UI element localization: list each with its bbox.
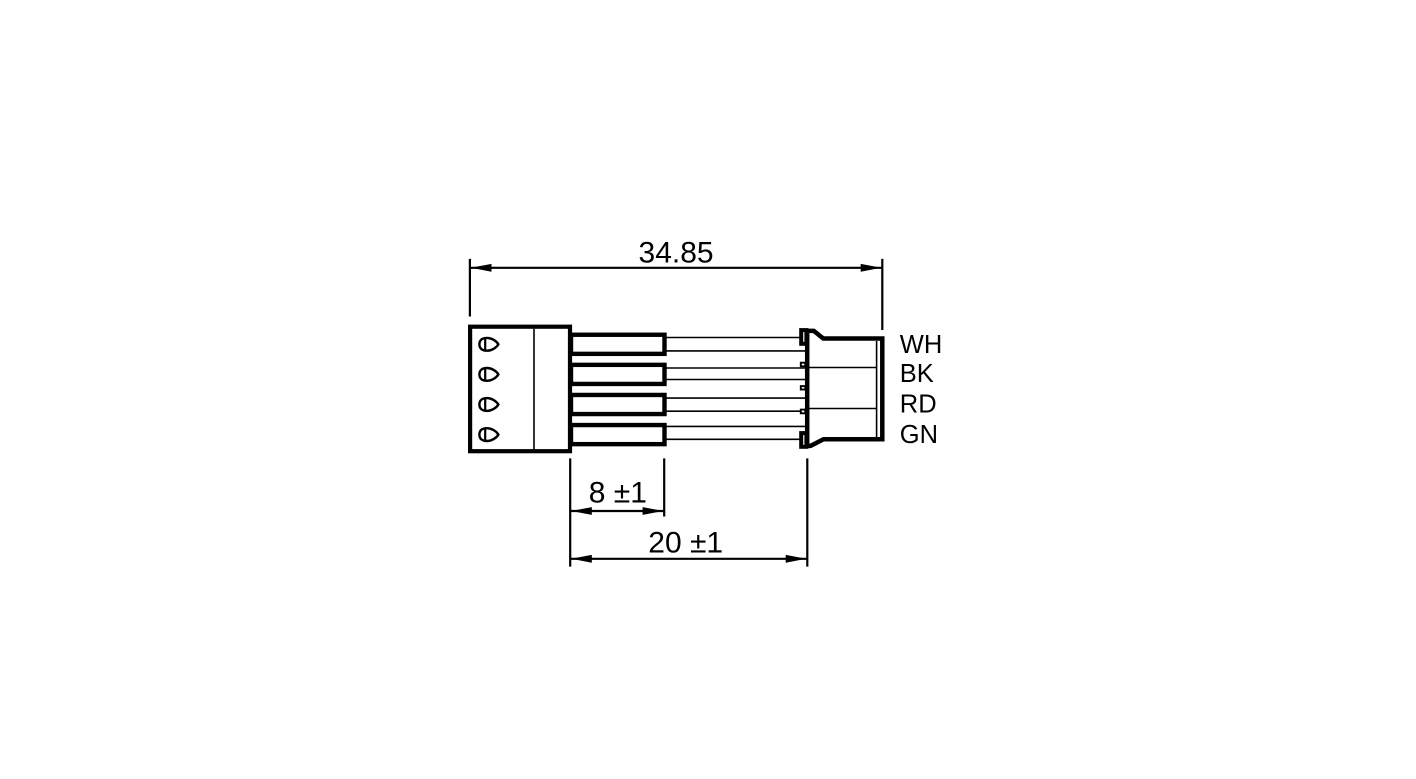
crimp pin 1 — [571, 335, 665, 354]
svg-text:RD: RD — [900, 390, 937, 418]
dimension 34.85 extension line right — [881, 259, 883, 330]
plug latch tab bottom — [801, 433, 806, 447]
dimension 34.85 arrow right — [861, 264, 882, 272]
svg-text:BK: BK — [900, 360, 934, 388]
wire row 3 (RD) — [664, 398, 806, 411]
svg-text:8 ±1: 8 ±1 — [589, 477, 647, 510]
screw slot 3 — [479, 398, 498, 411]
crimp pin 2 — [571, 365, 665, 384]
plug latch tab top — [801, 330, 806, 344]
plug housing inner right wall line — [876, 341, 878, 437]
dimension 8 extension line left — [569, 458, 571, 566]
dimension 34.85 line — [470, 267, 882, 269]
dimension 8 extension line right — [663, 458, 665, 516]
dimension 34.85 arrow left — [471, 264, 492, 272]
wire row 4 (GN) — [664, 426, 806, 439]
dimension 20 arrow left — [571, 555, 592, 563]
screw slot 2 — [479, 368, 498, 381]
dimension 8 arrow right — [643, 507, 664, 515]
dimension 20 extension line right — [806, 458, 808, 566]
dimension 8 arrow left — [571, 507, 592, 515]
dimension 20 line — [570, 558, 807, 560]
terminal block divider line — [533, 329, 535, 450]
dimension 20 arrow right — [786, 555, 807, 563]
svg-text:GN: GN — [900, 421, 938, 449]
crimp pin 3 — [571, 395, 665, 414]
wire row 1 (WH) — [664, 338, 806, 351]
wire row 2 (BK) — [664, 368, 806, 380]
plug small tab middle — [801, 386, 806, 389]
plug small tab upper — [801, 363, 806, 367]
plug small tab lower — [801, 410, 806, 414]
svg-text:WH: WH — [900, 331, 942, 359]
screw slot 1 — [479, 338, 498, 351]
plug housing inner partition line upper — [809, 367, 877, 369]
svg-text:20 ±1: 20 ±1 — [648, 526, 723, 559]
dimension 34.85 extension line left — [469, 259, 471, 317]
plug housing outline (right connector) — [807, 331, 882, 446]
svg-text:34.85: 34.85 — [639, 236, 714, 269]
screw slot 4 — [479, 428, 498, 441]
plug housing inner partition line lower — [809, 408, 877, 410]
dimension 8 line — [570, 510, 664, 512]
terminal block body (left connector) — [470, 327, 570, 452]
crimp pin 4 — [571, 425, 665, 444]
